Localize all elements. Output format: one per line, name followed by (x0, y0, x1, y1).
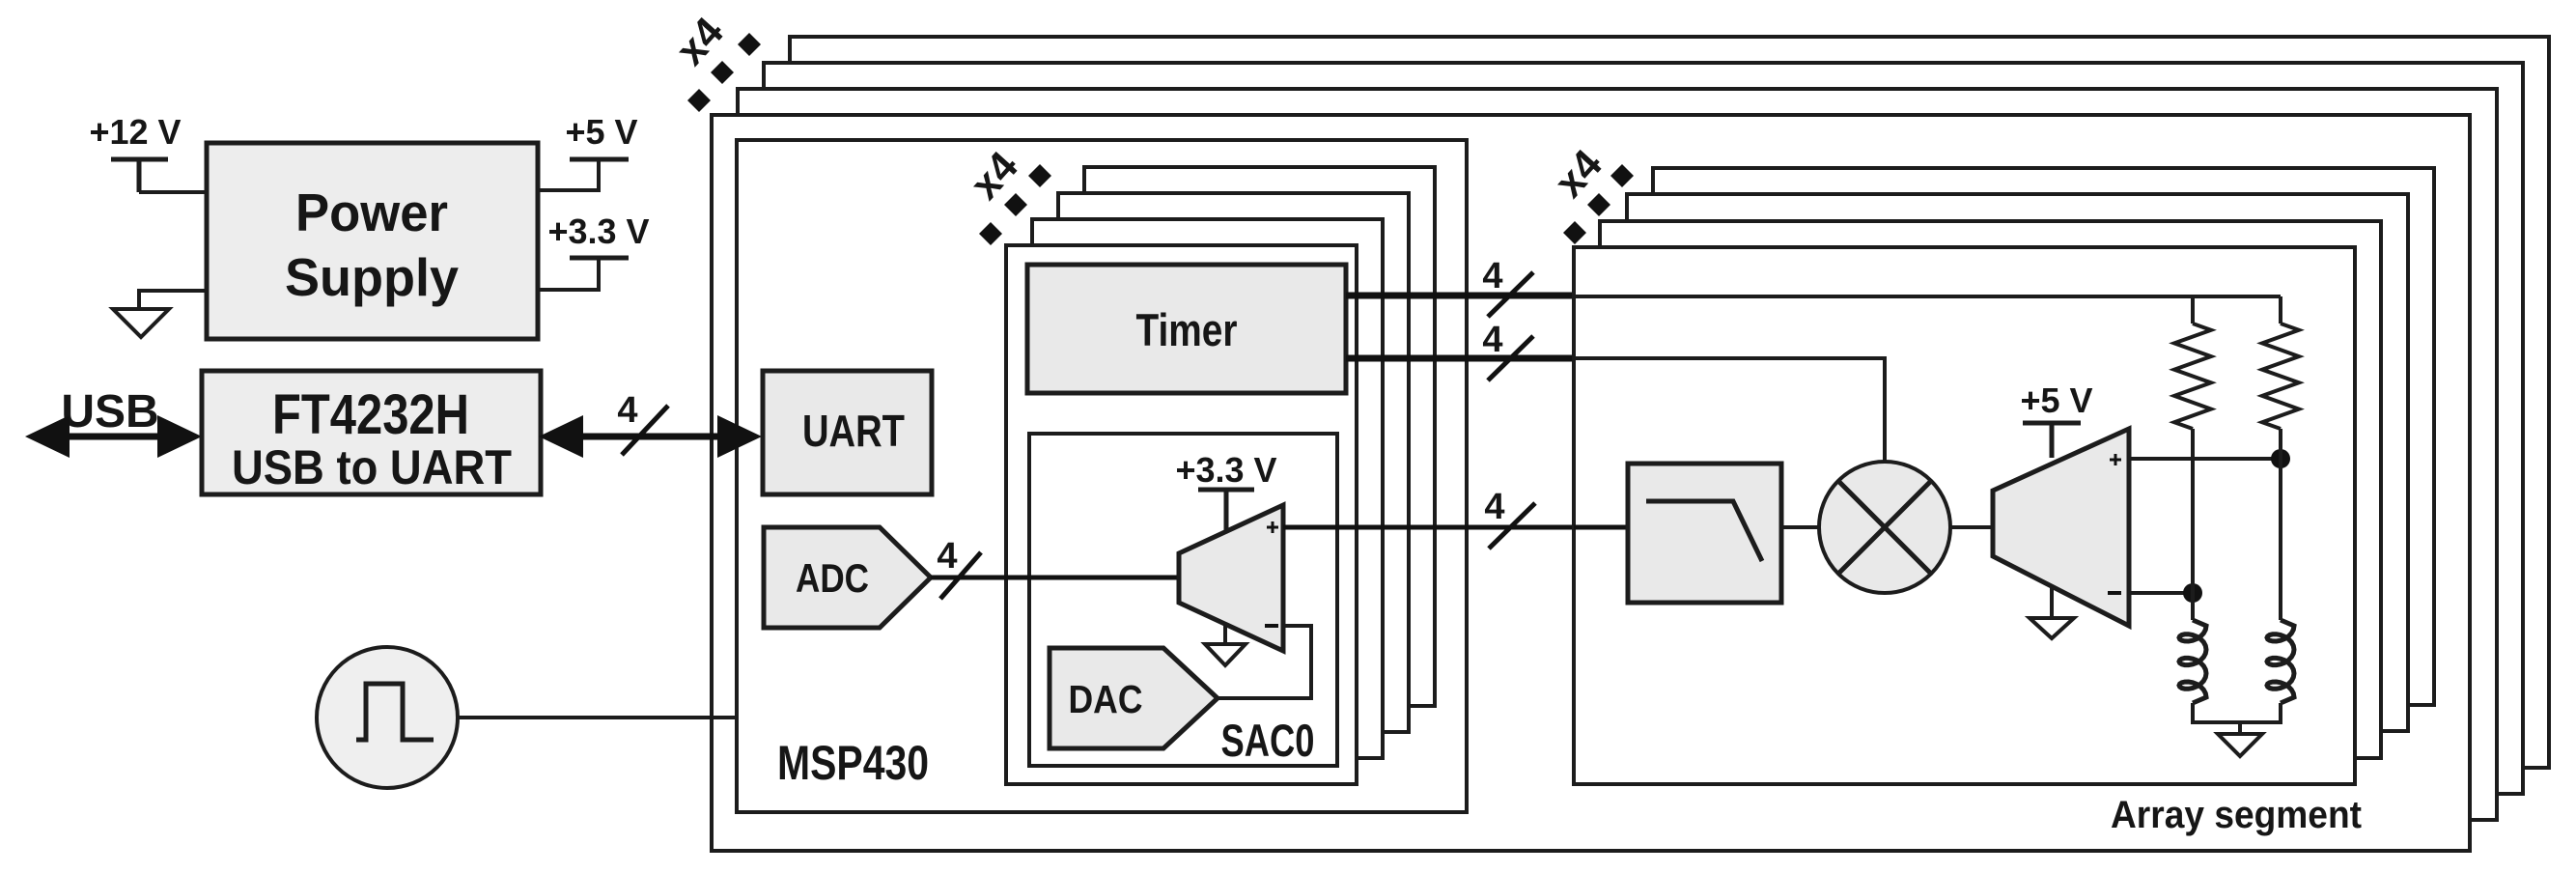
peripheral front rect (Timer + SAC0) (1006, 245, 1357, 784)
array stack rect 3 (1627, 194, 2408, 731)
ground (power supply) (113, 309, 169, 337)
timer bus 2 (thick) (1346, 355, 1574, 362)
bus slash (timer bus 1) (1488, 272, 1533, 317)
wire +12V to power supply (139, 190, 207, 194)
clock source circle (317, 647, 458, 788)
wire timer bus 1 inside array (to resistors) (1574, 295, 2281, 298)
+5V supply bar (570, 157, 629, 162)
inductor L-left (coil) (2179, 620, 2206, 703)
ground (coil return) (2218, 722, 2262, 756)
array front rect (Array segment) (1574, 247, 2355, 784)
diamond marker board 1 (738, 33, 761, 56)
svg-text:+3.3 V: +3.3 V (547, 211, 649, 251)
svg-text:ADC: ADC (796, 555, 869, 601)
USB bidirectional bus (58, 434, 169, 440)
array stack rect 4 (backmost) (1653, 168, 2434, 705)
diamond marker array 2 (1587, 193, 1610, 216)
wire left resistor to minus node (2191, 429, 2195, 620)
peripheral stack rect 2 (1032, 219, 1383, 758)
junction dot (minus / left leg) (2183, 583, 2202, 603)
bus slash (analog bus) (1489, 503, 1535, 549)
inductor L-right (coil) (2267, 620, 2294, 703)
DAC block (1050, 648, 1218, 748)
svg-text:4: 4 (1482, 320, 1502, 360)
wire right resistor to plus node and coil (2279, 429, 2282, 620)
Timer box (1027, 265, 1346, 393)
wire power supply to ground (139, 291, 207, 309)
junction dot (plus / right leg) (2271, 449, 2290, 468)
low-pass filter box (1628, 464, 1781, 603)
mixer (circle with X) (1819, 462, 1950, 593)
diamond marker periph 2 (1004, 193, 1027, 216)
wire mixer to array amp (1950, 525, 1993, 529)
UART bus FT4232H to MSP430 (572, 434, 730, 440)
diamond marker board 2 (711, 61, 734, 84)
MSP430 box (737, 140, 1467, 812)
SAC0 box (1029, 434, 1337, 766)
timer bus 1 (thick) (1346, 293, 1574, 299)
op-amp U-array (points left) (1993, 429, 2129, 626)
board stack rect 3 (764, 63, 2523, 794)
svg-text:Power: Power (295, 183, 448, 242)
power supply box (207, 143, 538, 339)
wire top feed to right resistor (2279, 296, 2282, 324)
array stack rect 2 (1600, 221, 2381, 758)
+12V supply bar (111, 159, 168, 192)
wire analog bus inside array (1574, 525, 1628, 530)
minus input mark (array amp) (2108, 591, 2121, 595)
+3.3V supply bar (570, 256, 629, 261)
svg-text:UART: UART (802, 406, 905, 456)
op-amp U-SAC0 (points left) (1179, 505, 1283, 651)
peripheral stack rect 3 (1058, 193, 1409, 732)
svg-text:DAC: DAC (1069, 677, 1143, 721)
board stack rect 2 (738, 89, 2497, 820)
svg-text:Supply: Supply (285, 247, 459, 307)
wire power supply to +5V (538, 159, 599, 190)
plus input mark (SAC0 amp) (1267, 521, 1278, 533)
svg-text:4: 4 (617, 390, 637, 431)
bottom return wire (2193, 703, 2281, 722)
wire clock to MSP430 (458, 716, 737, 719)
svg-text:+3.3 V: +3.3 V (1175, 450, 1276, 490)
wire timer bus 2 inside array (to mixer LO) (1574, 358, 1885, 465)
svg-text:SAC0: SAC0 (1221, 715, 1315, 766)
svg-text:FT4232H: FT4232H (272, 383, 469, 446)
feedback wire DAC to SAC0 amp minus (1218, 626, 1311, 698)
board stack rect 4 (backmost) (790, 37, 2549, 768)
svg-text:+5 V: +5 V (565, 112, 637, 152)
analog bus SAC0 to filter (1283, 525, 1628, 530)
peripheral stack rect 4 (backmost) (1084, 167, 1435, 706)
bus slash (UART bus) (622, 406, 668, 455)
svg-text:USB to UART: USB to UART (232, 440, 512, 494)
svg-text:MSP430: MSP430 (777, 736, 929, 790)
diamond marker periph 3 (979, 222, 1002, 245)
UART box (763, 371, 932, 494)
ADC block (764, 527, 931, 628)
minus input mark (SAC0 amp) (1265, 624, 1278, 628)
plus input mark (array amp) (2110, 454, 2121, 465)
bus slash (timer bus 2) (1488, 336, 1533, 380)
resistor R-right (2262, 324, 2299, 429)
diamond marker board 3 (687, 89, 711, 112)
FT4232H USB to UART box (202, 371, 541, 494)
board front rect (MSP430 carrier board) (712, 115, 2470, 851)
svg-text:+12 V: +12 V (89, 112, 181, 152)
wire filter to mixer (1781, 525, 1819, 529)
+5V bar (array amp) (2023, 423, 2081, 458)
pulse waveform symbol (356, 684, 434, 740)
svg-text:Timer: Timer (1136, 304, 1238, 355)
wire array amp plus input (2129, 457, 2281, 461)
wire top feed to left resistor (2191, 296, 2195, 324)
svg-text:USB: USB (61, 386, 158, 437)
wire power supply to +3.3V (538, 258, 599, 290)
svg-text:4: 4 (1484, 487, 1504, 527)
filter response curve (1646, 501, 1762, 561)
+3.3V bar (SAC0) (1198, 490, 1254, 533)
svg-text:4: 4 (1482, 256, 1502, 296)
wire array amp minus input (2129, 591, 2193, 595)
ground (SAC0 amp) (1205, 624, 1246, 665)
diamond marker array 1 (1610, 164, 1634, 187)
ground (array amp) (2030, 587, 2074, 638)
svg-text:Array segment: Array segment (2111, 794, 2362, 836)
diamond marker array 3 (1563, 221, 1586, 244)
resistor R-left (2174, 324, 2211, 429)
svg-text:+5 V: +5 V (2020, 380, 2092, 420)
diamond marker periph 1 (1028, 164, 1051, 187)
bus slash (ADC) (940, 552, 981, 599)
wire ADC to SAC0 amp (931, 576, 1179, 580)
svg-text:4: 4 (937, 536, 957, 577)
